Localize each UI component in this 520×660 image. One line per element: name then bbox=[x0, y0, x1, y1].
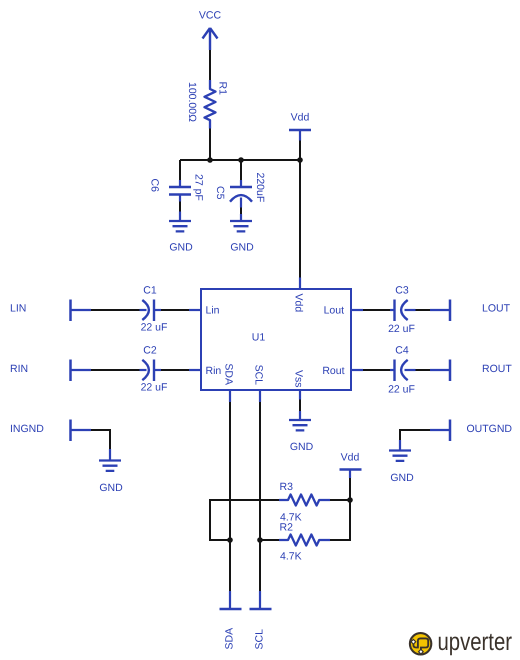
wire OUTGND to ground bbox=[400, 430, 430, 440]
capacitor C3 22 uF bbox=[388, 285, 415, 336]
svg-text:C5: C5 bbox=[214, 186, 226, 200]
wire SDA vertical bbox=[229, 402, 231, 591]
wire top rail bbox=[180, 159, 300, 161]
wire R1 to rail bbox=[209, 129, 211, 161]
svg-text:ROUT: ROUT bbox=[482, 363, 512, 375]
pin Vss of U1 bbox=[293, 370, 305, 400]
svg-text:Rout: Rout bbox=[322, 365, 344, 377]
wire Vss to ground bbox=[299, 400, 301, 412]
wire C4 to ROUT bbox=[416, 369, 431, 371]
svg-text:Lin: Lin bbox=[206, 305, 220, 317]
node junction SDA/pullup bbox=[227, 537, 233, 543]
power flag VCC bbox=[199, 10, 222, 51]
port SCL bbox=[250, 591, 272, 650]
wire R2 left to SCL bbox=[260, 539, 279, 541]
pin Rin bbox=[189, 365, 221, 377]
svg-text:C3: C3 bbox=[395, 285, 409, 297]
node junction C5/rail bbox=[238, 157, 244, 163]
svg-text:100.00Ω: 100.00Ω bbox=[186, 82, 198, 122]
ground below C5 bbox=[230, 214, 254, 254]
ground below Vss bbox=[289, 411, 314, 453]
svg-text:27 pF: 27 pF bbox=[193, 174, 205, 201]
resistor R3 4.7K bbox=[279, 481, 330, 524]
svg-text:4.7K: 4.7K bbox=[280, 551, 302, 563]
svg-text:VCC: VCC bbox=[199, 10, 222, 22]
power flag Vdd top bbox=[289, 112, 311, 141]
svg-text:Rin: Rin bbox=[206, 365, 222, 377]
wire C5 to ground bbox=[240, 208, 242, 215]
svg-text:SCL: SCL bbox=[253, 365, 265, 386]
wire R2 right to junction bbox=[330, 500, 350, 540]
capacitor C1 22 uF bbox=[140, 285, 168, 334]
pin Vdd of U1 bbox=[293, 278, 305, 313]
pin SCL of U1 bbox=[253, 365, 265, 402]
svg-text:Vdd: Vdd bbox=[341, 452, 360, 464]
port RIN bbox=[10, 360, 91, 382]
node junction R1/rail bbox=[207, 157, 213, 163]
svg-text:OUTGND: OUTGND bbox=[467, 423, 513, 435]
wire C3 to LOUT bbox=[416, 309, 431, 311]
svg-text:22 uF: 22 uF bbox=[141, 382, 168, 394]
svg-text:R3: R3 bbox=[280, 481, 294, 493]
svg-text:C4: C4 bbox=[395, 345, 409, 357]
svg-text:GND: GND bbox=[390, 472, 414, 484]
svg-text:GND: GND bbox=[290, 441, 314, 453]
wire Vdd flag to rail bbox=[299, 141, 301, 161]
wire rail to C5 bbox=[240, 160, 242, 180]
svg-text:GND: GND bbox=[99, 482, 123, 494]
ground below OUTGND bbox=[389, 440, 414, 484]
svg-text:22 uF: 22 uF bbox=[388, 384, 415, 396]
node junction Vdd/rail bbox=[297, 157, 303, 163]
ground below INGND bbox=[99, 449, 123, 494]
svg-text:GND: GND bbox=[230, 242, 254, 254]
svg-text:Vdd: Vdd bbox=[293, 294, 305, 313]
wire RIN to C2 bbox=[91, 369, 140, 371]
wire VCC to R1 bbox=[209, 50, 211, 80]
svg-text:22 uF: 22 uF bbox=[388, 323, 415, 335]
port LOUT bbox=[430, 300, 511, 322]
port LIN bbox=[10, 300, 91, 322]
wire rail to U1 Vdd pin bbox=[299, 160, 301, 278]
svg-text:RIN: RIN bbox=[10, 363, 28, 375]
pin SDA of U1 bbox=[223, 363, 235, 402]
wire rail to C6 bbox=[179, 160, 181, 180]
wire LIN to C1 bbox=[91, 309, 140, 311]
svg-text:upverter: upverter bbox=[438, 628, 513, 656]
capacitor C6 27 pF bbox=[149, 174, 205, 202]
svg-text:C6: C6 bbox=[149, 179, 161, 193]
svg-text:Vss: Vss bbox=[293, 370, 305, 388]
svg-text:U1: U1 bbox=[252, 332, 266, 344]
resistor R2 4.7K bbox=[279, 522, 330, 563]
wire C2 to U1 Rin bbox=[161, 369, 189, 371]
svg-text:220uF: 220uF bbox=[254, 173, 266, 203]
svg-text:LOUT: LOUT bbox=[482, 303, 511, 315]
svg-text:R1: R1 bbox=[217, 82, 229, 96]
svg-text:GND: GND bbox=[169, 242, 193, 254]
capacitor C4 22 uF bbox=[388, 345, 415, 396]
wire U1 Lout to C3 bbox=[363, 309, 390, 311]
capacitor C5 220uF bbox=[214, 173, 266, 208]
wire SCL vertical bbox=[259, 402, 261, 591]
ground below C6 bbox=[169, 212, 193, 254]
svg-text:INGND: INGND bbox=[10, 423, 44, 435]
svg-text:R2: R2 bbox=[280, 522, 294, 534]
power flag Vdd pullups bbox=[340, 452, 362, 479]
svg-text:SDA: SDA bbox=[223, 363, 235, 385]
node junction R3/R2/Vdd bbox=[347, 497, 353, 503]
wire Vdd flag to R3 junction bbox=[349, 478, 351, 500]
pin Rout bbox=[322, 365, 363, 377]
pin Lin bbox=[189, 305, 220, 317]
wire U1 Rout to C4 bbox=[363, 369, 390, 371]
wire C6 to ground bbox=[179, 202, 181, 212]
port INGND bbox=[10, 420, 91, 442]
svg-text:Vdd: Vdd bbox=[291, 112, 310, 124]
wire C1 to U1 Lin bbox=[161, 309, 189, 311]
svg-text:C1: C1 bbox=[143, 285, 157, 297]
capacitor C2 22 uF bbox=[140, 345, 168, 394]
IC U1 bbox=[201, 289, 351, 390]
port OUTGND bbox=[430, 420, 512, 442]
svg-text:C2: C2 bbox=[143, 345, 157, 357]
resistor R1 100.00 Ohm bbox=[186, 80, 229, 129]
svg-text:LIN: LIN bbox=[10, 303, 26, 315]
svg-text:SDA: SDA bbox=[224, 628, 236, 650]
svg-text:22 uF: 22 uF bbox=[141, 322, 168, 334]
port SDA bbox=[220, 591, 242, 650]
pin Lout bbox=[324, 305, 363, 317]
svg-text:Lout: Lout bbox=[324, 305, 345, 317]
svg-text:SCL: SCL bbox=[254, 629, 266, 650]
upverter logo bbox=[410, 628, 512, 656]
port ROUT bbox=[430, 360, 512, 382]
wire R3 left run bbox=[210, 500, 279, 540]
node junction SCL/pullup bbox=[257, 537, 263, 543]
wire INGND to ground bbox=[91, 430, 110, 449]
wire R3 right to junction bbox=[330, 499, 350, 501]
